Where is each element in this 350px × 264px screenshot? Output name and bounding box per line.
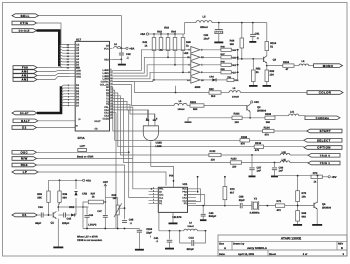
svg-text:R204: R204 xyxy=(283,61,290,64)
svg-text:HALT: HALT xyxy=(95,120,102,123)
ground R69 xyxy=(293,224,302,226)
resistor R134 xyxy=(263,126,307,136)
resistor R69 xyxy=(296,211,307,224)
svg-text:R202: R202 xyxy=(234,113,241,116)
connector LP xyxy=(12,170,38,174)
connector TRIG 1 xyxy=(308,161,340,165)
wire R201 to Q2 xyxy=(204,106,247,108)
svg-text:21: 21 xyxy=(110,102,112,105)
transistor Q2 xyxy=(247,104,267,112)
svg-text:CS: CS xyxy=(76,43,80,46)
svg-text:R49: R49 xyxy=(221,61,226,64)
svg-text:160: 160 xyxy=(266,121,271,124)
capacitor C45 xyxy=(58,213,71,226)
wire Q6 emitter xyxy=(316,209,318,224)
wire top rail xyxy=(212,22,267,24)
label F04 xyxy=(169,175,174,178)
svg-text:+5A: +5A xyxy=(86,178,91,182)
svg-text:LUM2: LUM2 xyxy=(102,75,109,78)
wire trim bottom rail xyxy=(83,207,139,229)
wire LUM1 to gate2 xyxy=(113,56,191,73)
wire U21 feedback loop A xyxy=(188,189,201,202)
resistor R71 xyxy=(276,200,297,212)
power +5V trim xyxy=(103,180,108,203)
wire LUM2 to gate3 xyxy=(113,64,191,76)
wire U21 feedback loop B xyxy=(188,195,205,206)
svg-text:1k5: 1k5 xyxy=(113,197,118,200)
bus fan-out D0-D7 to U17 xyxy=(61,85,70,107)
ground C40 xyxy=(200,219,207,221)
ground R52 xyxy=(249,85,257,87)
svg-text:1nF: 1nF xyxy=(279,170,284,173)
ground C86 xyxy=(271,176,278,178)
svg-text:CK1: CK1 xyxy=(159,194,164,197)
resistors R41-R45 bodies xyxy=(152,34,185,51)
wire staircase deep2 xyxy=(113,110,149,198)
title block xyxy=(218,235,347,256)
svg-text:CR4: CR4 xyxy=(209,76,214,79)
resistor R133 xyxy=(230,158,241,169)
svg-text:2D: 2D xyxy=(184,194,187,197)
svg-text:OSC: OSC xyxy=(21,150,29,154)
wire BELL to +5A node xyxy=(39,16,122,49)
svg-text:R71: R71 xyxy=(277,200,282,203)
svg-text:R134: R134 xyxy=(264,126,271,129)
svg-text:TRIG 1: TRIG 1 xyxy=(320,162,331,165)
resistor R50 xyxy=(200,68,237,74)
svg-text:3 of: 3 of xyxy=(303,253,308,256)
wire staircase TRIG1 xyxy=(113,99,281,163)
svg-text:470: 470 xyxy=(265,133,270,136)
wire AN0 xyxy=(37,70,70,73)
svg-text:19: 19 xyxy=(110,96,112,99)
bus DO-D15 xyxy=(37,31,60,67)
svg-text:HALT: HALT xyxy=(21,119,30,123)
svg-text:470: 470 xyxy=(255,149,260,152)
connector HALT xyxy=(13,119,38,123)
svg-text:L31: L31 xyxy=(290,111,295,114)
wire chroma feed xyxy=(113,85,175,106)
capacitor C41 xyxy=(154,231,173,248)
wire Q3 emitter xyxy=(266,63,283,67)
resistor R52 xyxy=(252,59,262,85)
svg-text:820uH: 820uH xyxy=(200,26,208,29)
power +5C xyxy=(250,100,259,104)
connector F00 xyxy=(13,66,37,70)
connector BELL xyxy=(12,14,39,18)
svg-text:VCC: VCC xyxy=(182,188,187,191)
wire R72 left xyxy=(275,175,319,177)
wire R41 bottom xyxy=(153,51,155,80)
resistor R205 xyxy=(265,113,275,124)
bus fan-out DO-D15 to U17 xyxy=(59,46,69,68)
svg-text:R47: R47 xyxy=(221,53,226,56)
svg-text:C111: C111 xyxy=(189,236,195,239)
wire summing node xyxy=(231,49,238,80)
svg-text:C44: C44 xyxy=(38,206,43,209)
resistor R51 xyxy=(227,76,239,82)
resistor R22 xyxy=(209,88,221,98)
wire Q1 collector node xyxy=(57,202,88,211)
svg-text:CK2: CK2 xyxy=(182,196,187,199)
wire Q6 collector rail xyxy=(317,176,319,203)
wire staircase deep3 xyxy=(113,113,117,229)
svg-text:3k3: 3k3 xyxy=(211,95,216,98)
svg-text:Q1: Q1 xyxy=(51,221,55,224)
flip-flop U21 74LS74 xyxy=(149,183,197,219)
svg-text:11: 11 xyxy=(110,74,112,77)
svg-text:Jerzy SOBOLA: Jerzy SOBOLA xyxy=(247,246,267,250)
wire Q3 base xyxy=(238,58,264,60)
wire R/W xyxy=(37,158,133,160)
svg-text:SELECT: SELECT xyxy=(317,138,331,142)
gate U18D xyxy=(143,117,162,148)
svg-text:R136: R136 xyxy=(255,142,262,145)
svg-text:CSYNC: CSYNC xyxy=(101,80,109,83)
svg-text:L37*: L37* xyxy=(80,145,85,148)
svg-text:O2: O2 xyxy=(22,126,27,130)
buffer gates U20 4050 xyxy=(184,47,205,89)
wire LUM0 to gate1 xyxy=(113,49,191,70)
bead L37 xyxy=(37,145,129,153)
capacitor C80 xyxy=(204,23,223,42)
svg-text:OPTION: OPTION xyxy=(317,146,330,150)
svg-text:2N3904: 2N3904 xyxy=(322,207,332,210)
svg-text:470: 470 xyxy=(241,143,246,146)
svg-text:Drawn by: Drawn by xyxy=(233,243,245,246)
connector START xyxy=(307,129,342,133)
svg-text:23: 23 xyxy=(110,108,112,111)
wire +5A rail xyxy=(149,33,185,35)
resistor R204 xyxy=(283,61,294,71)
inductor L31 xyxy=(273,111,305,116)
svg-text:C47: C47 xyxy=(97,210,102,213)
capacitor C48 xyxy=(118,207,134,225)
resistor R70 xyxy=(296,177,307,202)
ground C81 xyxy=(249,41,256,43)
svg-text:660: 660 xyxy=(63,197,68,200)
svg-text:LS08: LS08 xyxy=(156,145,163,148)
svg-text:17: 17 xyxy=(110,91,112,94)
transistor Q6 xyxy=(314,202,332,210)
wire L9 row xyxy=(159,212,184,231)
svg-text:R133: R133 xyxy=(231,158,237,161)
svg-text:6k7: 6k7 xyxy=(230,192,235,195)
connector AN0 xyxy=(13,70,37,74)
svg-text:R22: R22 xyxy=(209,88,214,91)
svg-text:CA2: CA2 xyxy=(104,114,109,117)
diode CR4 xyxy=(200,76,227,82)
svg-text:12: 12 xyxy=(110,76,112,79)
connector MONO xyxy=(314,64,343,68)
wire OSC feed to U21 xyxy=(77,151,79,153)
svg-text:5: 5 xyxy=(153,198,154,201)
svg-text:74LS74: 74LS74 xyxy=(172,216,182,219)
inductor L6 video xyxy=(294,60,314,65)
connector RD4 xyxy=(12,163,37,167)
svg-text:15: 15 xyxy=(110,85,112,88)
svg-text:18: 18 xyxy=(110,93,112,96)
svg-text:AN2: AN2 xyxy=(76,75,81,78)
connector CTIA xyxy=(12,21,37,25)
svg-text:68pF: 68pF xyxy=(35,222,41,225)
svg-text:1k6: 1k6 xyxy=(230,43,235,46)
power +5A rail arrow xyxy=(140,32,149,36)
wire R71 to base node xyxy=(296,202,299,211)
wire U18D output xyxy=(151,142,175,188)
inductor L30 xyxy=(251,151,308,156)
svg-text:COLOR: COLOR xyxy=(319,91,332,95)
capacitor C88 xyxy=(225,196,252,209)
svg-text:BELL: BELL xyxy=(21,14,30,18)
svg-text:+5A: +5A xyxy=(129,46,134,50)
diode CR3 xyxy=(69,206,76,217)
svg-text:C46: C46 xyxy=(89,214,94,217)
ground C80 xyxy=(214,42,223,44)
label R41 xyxy=(143,41,148,47)
svg-text:470: 470 xyxy=(277,209,282,212)
capacitor C206 xyxy=(137,228,153,249)
wire staircase to U18D in1 xyxy=(113,101,150,120)
label R45 xyxy=(186,41,191,47)
svg-text:100uH: 100uH xyxy=(232,95,239,98)
svg-text:CA1: CA1 xyxy=(104,112,109,115)
svg-text:TRIG 0: TRIG 0 xyxy=(320,154,331,157)
svg-text:CR2: CR2 xyxy=(82,193,88,196)
svg-text:L001*2: L001*2 xyxy=(88,223,97,226)
wire staircase SELECT xyxy=(113,90,241,140)
svg-text:D: D xyxy=(341,246,343,250)
svg-text:1D: 1D xyxy=(159,191,162,194)
svg-text:R201: R201 xyxy=(190,101,197,104)
wire R43 bottom xyxy=(167,51,169,58)
capacitor C44 xyxy=(35,206,52,225)
svg-text:+5V: +5V xyxy=(103,180,108,184)
wire staircase TRIG0 xyxy=(113,96,281,155)
resistor R72 xyxy=(311,172,322,184)
svg-text:R42: R42 xyxy=(157,31,162,34)
svg-text:Bead or 470R: Bead or 470R xyxy=(77,155,93,158)
wire rail riser to L5 xyxy=(185,23,197,34)
bus D0-D7 xyxy=(37,86,61,113)
svg-text:VSS: VSS xyxy=(104,58,109,61)
ground Q6 xyxy=(312,224,322,226)
svg-text:AN0: AN0 xyxy=(76,70,81,73)
capacitor C111 xyxy=(180,231,206,251)
wire CTIA to U17 pin 32 xyxy=(37,23,70,45)
svg-text:A: A xyxy=(224,246,226,250)
wire staircase deep1 xyxy=(113,107,153,190)
svg-text:RD4: RD4 xyxy=(21,163,28,167)
capacitor C47 xyxy=(97,206,108,229)
connector AN1 xyxy=(13,74,37,78)
wire COLOR row xyxy=(113,82,210,93)
resistor R73 xyxy=(223,176,235,206)
svg-text:+5C: +5C xyxy=(254,100,259,104)
svg-text:VCC: VCC xyxy=(104,47,109,50)
connector O2 xyxy=(12,126,37,130)
svg-text:220pF: 220pF xyxy=(62,222,70,225)
svg-text:AN2: AN2 xyxy=(22,78,29,82)
svg-text:MONO: MONO xyxy=(323,64,334,68)
svg-text:R72: R72 xyxy=(313,172,318,175)
wire AN2 xyxy=(37,76,70,79)
svg-text:R43: R43 xyxy=(164,27,169,30)
wire HALT xyxy=(38,118,81,121)
svg-text:1Q: 1Q xyxy=(159,202,162,205)
svg-text:+5V: +5V xyxy=(331,175,336,179)
svg-text:1: 1 xyxy=(153,195,154,198)
svg-text:33K: 33K xyxy=(37,197,42,200)
label bead note xyxy=(77,155,93,158)
svg-text:3.9uH: 3.9uH xyxy=(187,225,194,228)
wire VSS xyxy=(113,59,123,64)
inductor L9 xyxy=(184,222,198,231)
resistor R93 xyxy=(265,66,275,85)
svg-text:R135: R135 xyxy=(241,136,248,139)
wire CSYNC to gate5 xyxy=(113,79,191,82)
inductor L5 xyxy=(196,16,212,29)
svg-text:DO-D15: DO-D15 xyxy=(19,30,30,33)
capacitor C87 xyxy=(249,155,261,176)
svg-text:1Q: 1Q xyxy=(159,199,162,202)
capacitor C46 xyxy=(83,207,94,229)
svg-text:R/W: R/W xyxy=(21,157,28,161)
connector CHROMA xyxy=(305,116,340,120)
label crystal note xyxy=(88,223,97,226)
svg-text:U17: U17 xyxy=(76,37,82,41)
svg-text:3: 3 xyxy=(153,192,154,195)
power +5V osc rail xyxy=(49,178,92,182)
resistor R136 xyxy=(254,142,304,152)
ground C206 xyxy=(135,249,144,251)
power +5V Q6 xyxy=(322,175,336,179)
ground C41 xyxy=(165,248,174,250)
svg-text:C81: C81 xyxy=(255,32,260,35)
resistor R37 xyxy=(83,192,103,207)
svg-text:25: 25 xyxy=(110,113,112,116)
svg-text:COL.AK: COL.AK xyxy=(100,83,109,86)
svg-text:LUM1: LUM1 xyxy=(102,72,109,75)
resistor R47 xyxy=(200,53,237,59)
connector AN2 xyxy=(13,78,37,82)
label R43 xyxy=(164,27,169,30)
wire L9 right xyxy=(197,230,206,232)
inductor L8 xyxy=(114,43,121,48)
wire O2 xyxy=(37,125,79,128)
svg-text:U21: U21 xyxy=(183,183,188,186)
svg-text:9: 9 xyxy=(110,68,111,71)
connector COLOR xyxy=(307,91,343,95)
wire to COLOR connector xyxy=(175,86,307,94)
svg-text:LUM3: LUM3 xyxy=(102,78,109,81)
svg-text:220: 220 xyxy=(232,166,237,169)
U17 body xyxy=(75,37,113,140)
wire R45 bottom xyxy=(182,51,184,73)
svg-text:100uH: 100uH xyxy=(178,108,185,111)
ground U17 VSS xyxy=(118,64,126,66)
svg-text:LUM0: LUM0 xyxy=(102,69,109,72)
svg-text:CA0: CA0 xyxy=(104,109,109,112)
wire LP xyxy=(38,172,166,186)
svg-text:R50: R50 xyxy=(221,68,226,71)
wire Q6 base xyxy=(298,204,314,206)
label R44 xyxy=(171,31,176,34)
connector D0-D7 xyxy=(12,111,37,115)
svg-text:6: 6 xyxy=(153,201,154,204)
svg-text:100: 100 xyxy=(235,121,240,124)
svg-text:CHROMA: CHROMA xyxy=(316,117,330,120)
trimmer R38 xyxy=(112,194,122,229)
resistor R39 xyxy=(37,180,50,215)
svg-text:AN1: AN1 xyxy=(76,72,81,75)
svg-text:22: 22 xyxy=(110,105,112,108)
svg-text:F04: F04 xyxy=(169,175,174,178)
ground R202 xyxy=(185,118,192,123)
resistor R201 xyxy=(187,101,204,111)
svg-text:O1: O1 xyxy=(22,213,27,217)
inductor L35 xyxy=(274,158,308,163)
wire staircase OPTION xyxy=(113,93,255,147)
resistor R202 xyxy=(188,113,265,124)
svg-text:4050: 4050 xyxy=(195,86,201,89)
wire U21 out row xyxy=(188,205,226,207)
svg-text:R132: R132 xyxy=(210,150,216,153)
ground R93 xyxy=(263,85,272,87)
svg-text:C45: C45 xyxy=(67,217,72,220)
capacitor C81 xyxy=(250,23,260,41)
label R42 xyxy=(157,31,162,34)
svg-text:1nF: 1nF xyxy=(257,170,262,173)
svg-text:22pF: 22pF xyxy=(239,199,245,202)
svg-text:220: 220 xyxy=(211,159,216,162)
svg-text:R44: R44 xyxy=(171,31,176,34)
inductor L6 chroma xyxy=(221,87,240,98)
svg-text:16: 16 xyxy=(110,88,112,91)
wire AN1 xyxy=(37,74,70,76)
svg-text:START: START xyxy=(320,129,331,133)
svg-text:C206 is not mounted.: C206 is not mounted. xyxy=(77,239,103,242)
svg-text:10: 10 xyxy=(110,71,112,74)
wire staircase START xyxy=(113,87,263,131)
resistor R36 xyxy=(58,180,68,202)
svg-text:560pF: 560pF xyxy=(209,215,217,218)
diode CR2 xyxy=(74,180,87,211)
svg-text:Date:: Date: xyxy=(219,253,225,256)
svg-text:100: 100 xyxy=(270,74,275,77)
transistor Q1 xyxy=(51,211,57,224)
U17 pins left xyxy=(67,43,101,130)
note when L37 xyxy=(77,235,151,242)
svg-text:U20: U20 xyxy=(184,52,189,55)
svg-text:10k: 10k xyxy=(302,196,307,199)
capacitor C42 xyxy=(119,48,131,59)
power +5A at U17 xyxy=(126,46,135,50)
wire Q1 emitter xyxy=(57,219,59,247)
svg-text:LP: LP xyxy=(23,170,28,174)
resistor R135 xyxy=(240,136,304,146)
connector TRIG 0 xyxy=(308,154,340,158)
svg-text:26: 26 xyxy=(110,116,112,119)
resistor R46 xyxy=(230,23,244,59)
wire LUM3 to gate4 xyxy=(113,71,191,78)
svg-text:+5A: +5A xyxy=(140,32,145,36)
ground Q1 xyxy=(53,247,63,249)
transistor Q3 xyxy=(264,56,277,63)
ground C87 xyxy=(249,176,256,178)
svg-text:April 12, 2009: April 12, 2009 xyxy=(238,253,255,256)
svg-text:D0-D7: D0-D7 xyxy=(20,112,29,115)
